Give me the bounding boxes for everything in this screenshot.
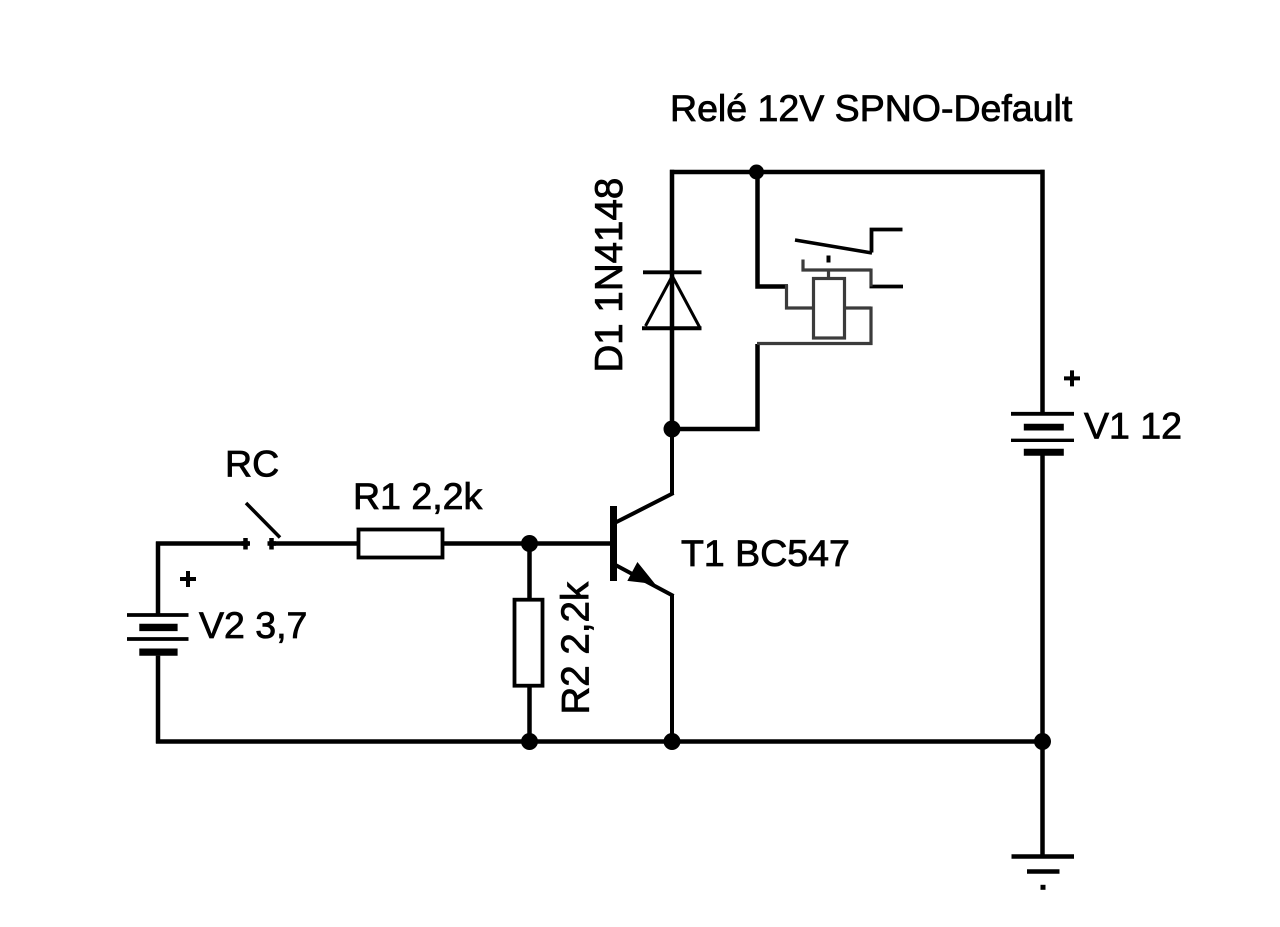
- svg-text:V1 12: V1 12: [1084, 405, 1182, 447]
- relay coil right leg: [844, 307, 871, 346]
- battery V2 plate 1: [127, 613, 189, 617]
- battery V1 plate 1: [1011, 412, 1074, 416]
- ground bar 1: [1012, 854, 1075, 859]
- transistor T1 emitter arrow: [628, 563, 654, 584]
- resistor R1 body: [359, 530, 443, 558]
- transistor T1 base bar: [610, 506, 617, 581]
- resistor R2 body: [515, 600, 543, 686]
- diode D1 cathode bar: [643, 270, 702, 274]
- switch RC blade: [246, 503, 280, 538]
- switch RC right contact tick: [268, 538, 277, 550]
- node ground junction dot: [1034, 733, 1051, 750]
- ground stem: [1040, 742, 1045, 857]
- wire relay feed upper with stub: [758, 170, 789, 287]
- battery V1 top lead: [1040, 170, 1045, 413]
- wire diode branch vertical: [670, 170, 675, 429]
- node base junction dot: [521, 535, 538, 552]
- svg-text:V2 3,7: V2 3,7: [199, 604, 307, 646]
- battery V1 plus sign: [1064, 370, 1080, 386]
- battery V1 plate 4: [1024, 449, 1064, 456]
- wire bottom rail: [156, 739, 1045, 744]
- relay contact stub B: [870, 285, 904, 289]
- ground bar 3: [1041, 885, 1046, 890]
- wire base junction to transistor: [530, 541, 612, 546]
- wire base junction to R2: [527, 542, 532, 602]
- diode D1 triangle sides: [646, 277, 700, 328]
- relay coil body: [814, 279, 845, 339]
- svg-text:R2 2,2k: R2 2,2k: [555, 581, 598, 714]
- battery V2 top lead: [156, 542, 161, 614]
- battery V1 bottom lead: [1040, 455, 1045, 743]
- svg-text:R1 2,2k: R1 2,2k: [353, 475, 482, 517]
- wire R1 to base junction: [442, 541, 531, 546]
- relay armature bar: [803, 260, 871, 271]
- svg-text:RC: RC: [225, 443, 279, 485]
- battery V2 plate 3: [127, 637, 189, 641]
- diode D1 triangle base: [642, 326, 702, 330]
- relay coil top tick: [827, 270, 830, 280]
- svg-text:D1 1N4148: D1 1N4148: [588, 178, 631, 373]
- relay bottom bar: [757, 342, 873, 345]
- node emitter bottom junction dot: [664, 733, 681, 750]
- transistor T1 emitter: [616, 565, 674, 744]
- node diode-collector junction dot: [664, 421, 681, 438]
- battery V1 plate 2: [1024, 424, 1064, 431]
- node R2 bottom junction dot: [521, 733, 538, 750]
- battery V2 plus sign: [180, 571, 196, 587]
- battery V1 plate 3: [1011, 439, 1074, 442]
- battery V2 bottom lead: [156, 656, 161, 744]
- wire V2 to switch: [156, 541, 249, 546]
- relay right upper leg: [869, 269, 872, 287]
- wire top rail: [670, 170, 1045, 175]
- relay actuator dash: [827, 256, 831, 263]
- svg-text:Relé 12V SPNO-Default: Relé 12V SPNO-Default: [670, 87, 1073, 129]
- relay coil left leg: [787, 285, 815, 308]
- ground bar 2: [1027, 869, 1060, 874]
- relay contact stub A with bend: [872, 230, 903, 253]
- transistor T1 collector: [616, 427, 674, 523]
- battery V2 plate 2: [139, 624, 177, 631]
- relay contact blade: [795, 240, 872, 253]
- wire R2 to bottom rail: [527, 685, 532, 744]
- wire relay coil return: [672, 344, 758, 429]
- node top junction dot: [749, 165, 764, 180]
- switch RC left contact tick: [242, 538, 251, 550]
- wire switch to R1: [272, 541, 359, 546]
- battery V2 plate 4: [139, 648, 177, 655]
- svg-text:T1 BC547: T1 BC547: [681, 532, 850, 574]
